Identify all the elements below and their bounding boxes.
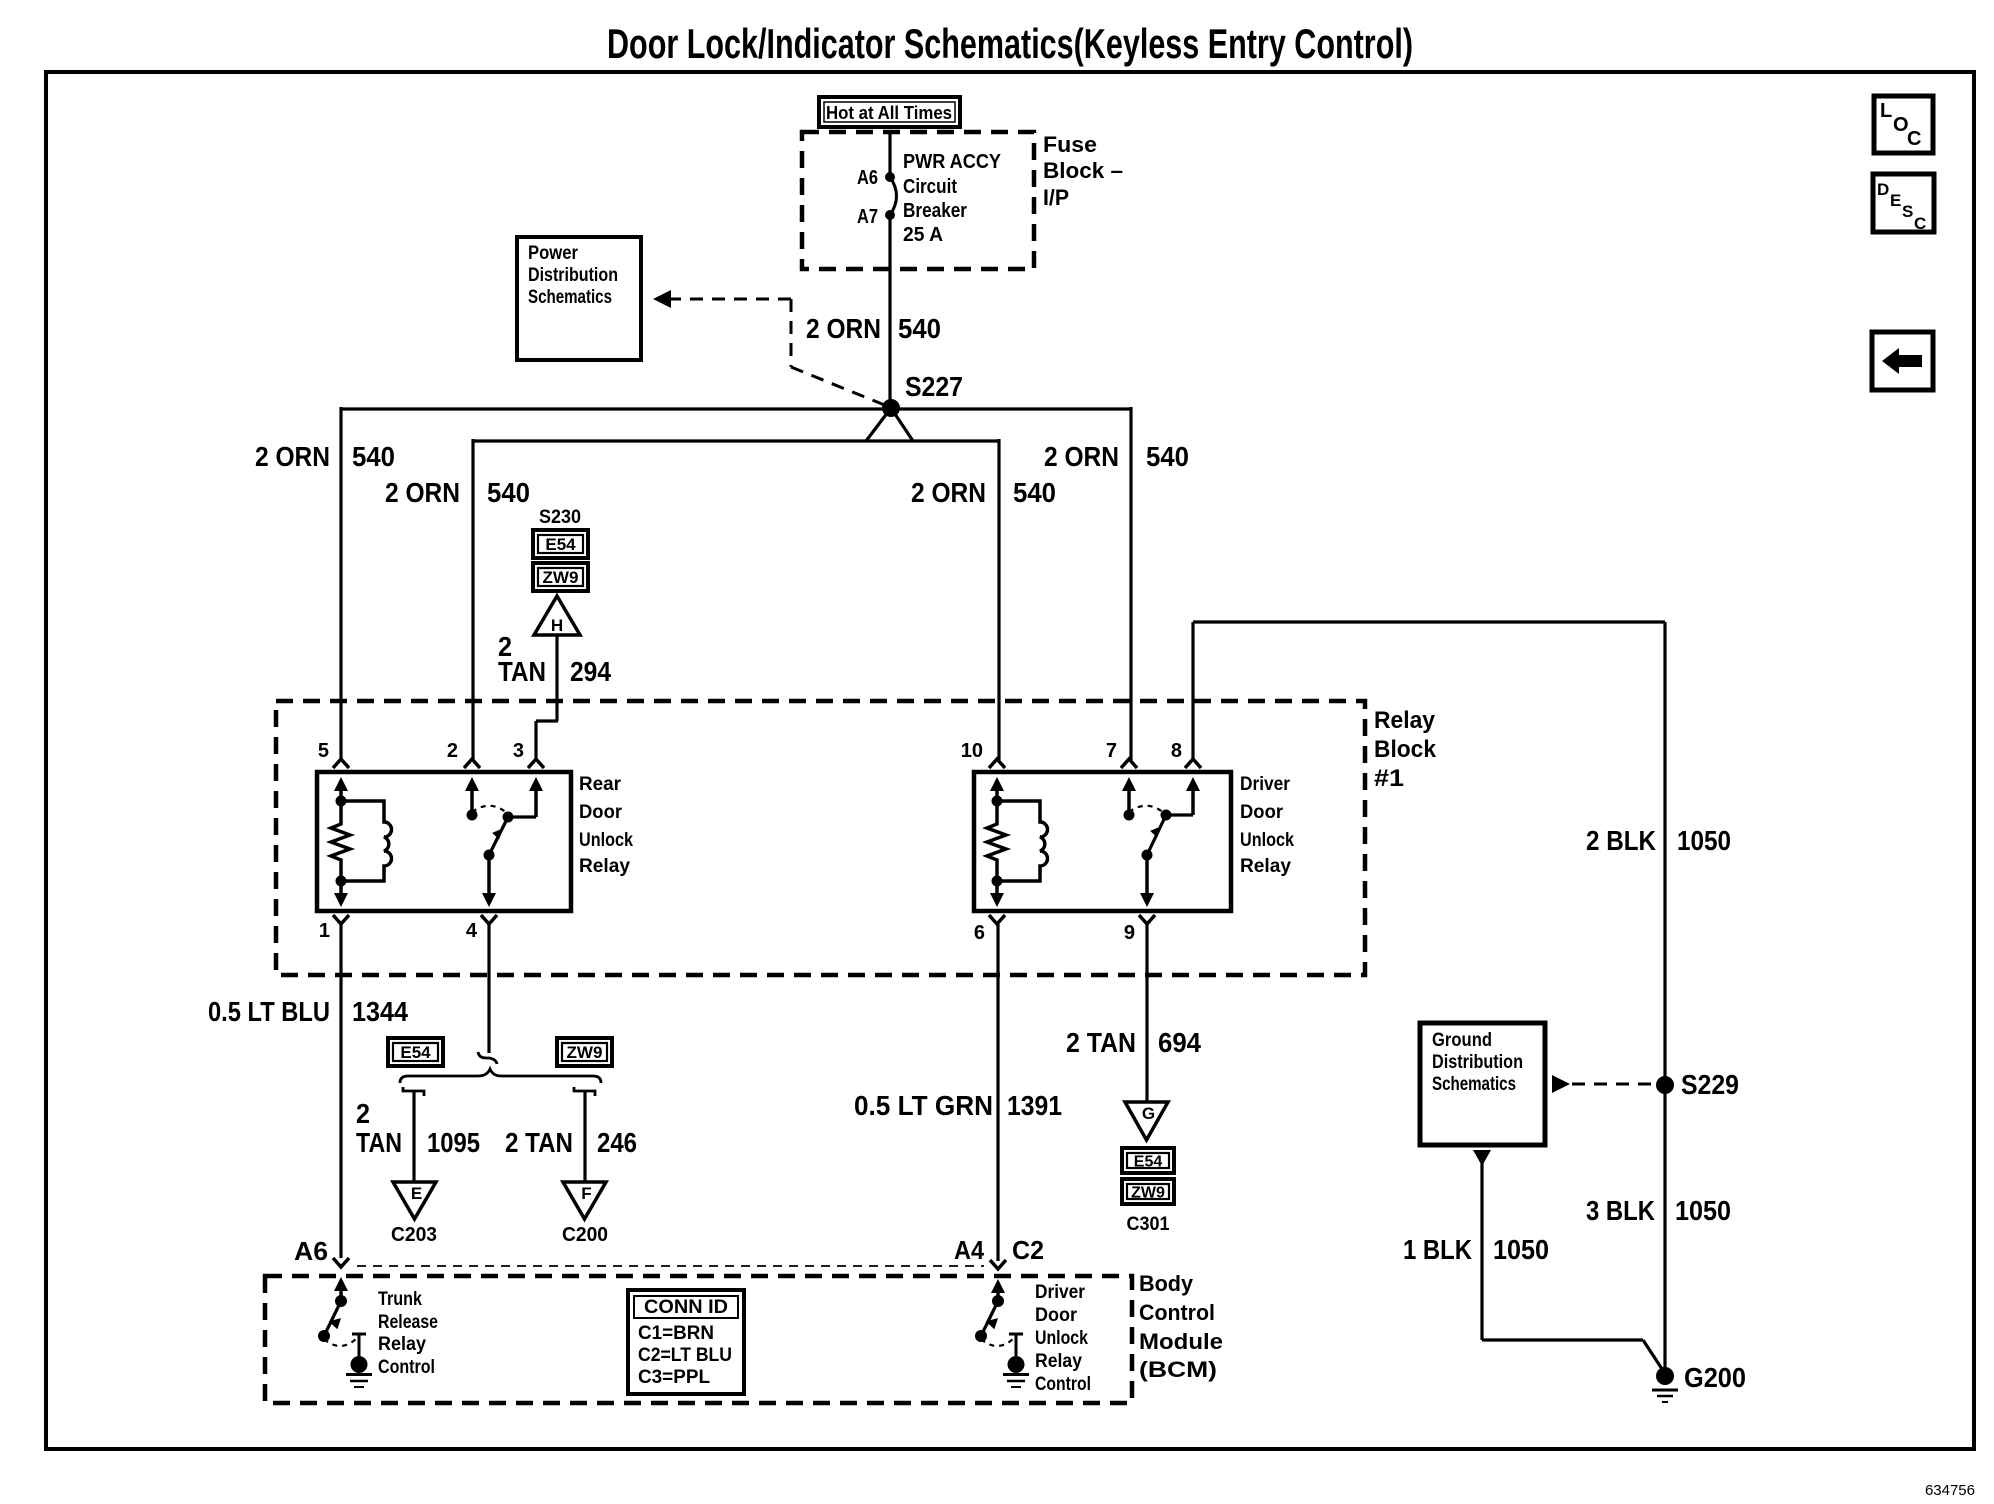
- relay: Rear Door Unlock Relay box: [317, 772, 571, 911]
- svg-text:E54: E54: [1134, 1153, 1163, 1170]
- Body Control Module dashed box: [265, 1276, 1132, 1403]
- svg-text:10: 10: [961, 740, 983, 762]
- pin 4 internal arrow: [482, 893, 496, 907]
- breakout left tap: [403, 1087, 424, 1096]
- svg-text:540: 540: [487, 477, 530, 508]
- wire ground distribution to G200: [1473, 1150, 1664, 1372]
- svg-text:1391: 1391: [1007, 1090, 1062, 1121]
- splice brace: [400, 1069, 601, 1083]
- svg-text:294: 294: [570, 656, 611, 687]
- label Driver Door Unlock Relay: [1240, 774, 1294, 877]
- svg-text:1344: 1344: [352, 996, 408, 1027]
- svg-text:A6: A6: [294, 1236, 328, 1266]
- svg-text:Ground: Ground: [1432, 1030, 1492, 1051]
- svg-text:L: L: [1880, 100, 1892, 122]
- svg-text:2: 2: [356, 1098, 370, 1129]
- svg-text:S230: S230: [539, 507, 581, 528]
- svg-text:2 TAN: 2 TAN: [505, 1127, 573, 1158]
- svg-text:ZW9: ZW9: [567, 1043, 603, 1062]
- svg-text:Driver: Driver: [1240, 774, 1291, 795]
- relay switch pivot (driver): [1161, 810, 1172, 821]
- svg-text:CONN ID: CONN ID: [644, 1297, 728, 1318]
- svg-text:Module: Module: [1139, 1329, 1223, 1354]
- label 2 ORN 540 (pin 2 branch): [385, 477, 530, 508]
- svg-text:Power: Power: [528, 243, 579, 264]
- svg-text:Unlock: Unlock: [1035, 1328, 1088, 1349]
- svg-text:1: 1: [319, 920, 330, 942]
- ground (trunk release): [351, 1356, 368, 1373]
- pin 7 connector chevron: [1121, 759, 1137, 768]
- triangle G: [1125, 1102, 1168, 1140]
- node S229: [1656, 1076, 1674, 1094]
- relay switch dashed throw (driver): [1129, 806, 1164, 813]
- svg-text:Door: Door: [579, 802, 623, 823]
- ground G200: [1652, 1390, 1678, 1402]
- svg-text:G: G: [1142, 1104, 1155, 1123]
- connector ZW9 (C301): [1122, 1179, 1174, 1204]
- triangle H: [534, 596, 580, 635]
- wire pin 9 to triangle G: [1145, 924, 1148, 1102]
- svg-text:#1: #1: [1374, 765, 1404, 792]
- wire pin 4 to splice breakout: [487, 924, 490, 1053]
- label Body Control Module (BCM): [1139, 1271, 1223, 1382]
- svg-text:PWR ACCY: PWR ACCY: [903, 151, 1002, 173]
- svg-text:2 TAN: 2 TAN: [1066, 1027, 1136, 1058]
- Relay Block #1 dashed box: [276, 701, 1365, 975]
- pin 6 internal arrow: [990, 893, 1004, 907]
- svg-text:ZW9: ZW9: [1131, 1184, 1165, 1201]
- svg-text:2 ORN: 2 ORN: [385, 477, 460, 508]
- svg-text:1050: 1050: [1675, 1195, 1731, 1226]
- svg-text:4: 4: [466, 920, 478, 942]
- svg-text:Driver: Driver: [1035, 1282, 1086, 1303]
- svg-text:1095: 1095: [427, 1127, 480, 1158]
- label 2 TAN 246: [505, 1127, 637, 1158]
- svg-text:Door Lock/Indicator Schematics: Door Lock/Indicator Schematics(Keyless E…: [607, 20, 1413, 67]
- dashed reference arrow to S229: [1552, 1075, 1652, 1093]
- node S227: [882, 399, 900, 417]
- svg-text:0.5 LT GRN: 0.5 LT GRN: [854, 1090, 993, 1121]
- fuse block dashed box: [802, 132, 1034, 269]
- pin 10 internal arrow: [990, 777, 1004, 791]
- svg-text:Body: Body: [1139, 1271, 1194, 1296]
- svg-text:ZW9: ZW9: [543, 568, 579, 587]
- svg-text:Block: Block: [1374, 736, 1437, 763]
- svg-text:Fuse: Fuse: [1043, 132, 1097, 157]
- svg-text:5: 5: [318, 740, 329, 762]
- wire fuse input: [888, 130, 891, 177]
- wire branch to pin 10: [997, 439, 1000, 760]
- svg-text:Door: Door: [1035, 1305, 1078, 1326]
- svg-text:E: E: [411, 1184, 422, 1203]
- svg-text:S227: S227: [905, 371, 963, 402]
- svg-text:7: 7: [1106, 740, 1117, 762]
- svg-text:540: 540: [352, 441, 395, 472]
- svg-text:25 A: 25 A: [903, 224, 943, 246]
- wire from triangle H to pin 3: [555, 635, 558, 721]
- pin 4 connector chevron: [481, 915, 497, 924]
- relay switch dashed throw (rear): [472, 806, 507, 813]
- svg-text:TAN: TAN: [356, 1127, 402, 1158]
- svg-text:Door: Door: [1240, 802, 1284, 823]
- svg-text:Control: Control: [1035, 1374, 1091, 1395]
- triangle E: [393, 1182, 436, 1219]
- Ground Distribution Schematics box: [1420, 1023, 1545, 1145]
- label 2 ORN 540 (pin 7 branch): [1044, 441, 1189, 472]
- svg-text:Unlock: Unlock: [579, 830, 633, 851]
- label Relay Block #1: [1374, 707, 1437, 792]
- CONN ID table: [628, 1290, 744, 1394]
- svg-text:I/P: I/P: [1043, 185, 1069, 210]
- svg-text:3: 3: [513, 740, 524, 762]
- svg-text:Distribution: Distribution: [528, 265, 618, 286]
- svg-text:S: S: [1902, 202, 1913, 221]
- node G200: [1656, 1367, 1674, 1385]
- wire branch to pin 5: [339, 407, 342, 760]
- svg-text:E54: E54: [545, 535, 576, 554]
- pin 2 connector chevron: [464, 759, 480, 768]
- pin 5 internal arrow: [334, 777, 348, 791]
- svg-text:Relay: Relay: [378, 1334, 426, 1355]
- svg-text:C2=LT BLU: C2=LT BLU: [638, 1345, 732, 1366]
- label 2 ORN 540 (fuse output): [806, 313, 941, 344]
- svg-text:Hot at All Times: Hot at All Times: [826, 103, 952, 123]
- svg-text:A4: A4: [954, 1235, 984, 1265]
- svg-text:C: C: [1914, 214, 1926, 233]
- svg-text:0.5 LT BLU: 0.5 LT BLU: [208, 996, 330, 1027]
- label Trunk Release Relay Control: [378, 1289, 438, 1378]
- BCM connector chevron A6: [333, 1258, 349, 1267]
- wire main bus: [341, 407, 1131, 410]
- label 3 BLK 1050: [1586, 1195, 1731, 1226]
- relay switch arm (rear): [484, 817, 509, 861]
- svg-text:Rear: Rear: [579, 774, 622, 795]
- label 2 TAN 694: [1066, 1027, 1201, 1058]
- label 2 BLK 1050: [1586, 825, 1731, 856]
- svg-text:2 ORN: 2 ORN: [255, 441, 330, 472]
- connector ZW9 (S230): [533, 563, 588, 591]
- svg-text:A7: A7: [857, 206, 878, 228]
- pin 3 connector chevron: [528, 759, 544, 768]
- svg-text:Circuit: Circuit: [903, 176, 957, 198]
- connector E54 (C301): [1122, 1148, 1174, 1173]
- relay switch pivot (rear): [503, 812, 514, 823]
- svg-text:1 BLK: 1 BLK: [1403, 1234, 1472, 1265]
- label 2 TAN 294: [498, 631, 611, 687]
- svg-text:Block –: Block –: [1043, 158, 1123, 183]
- svg-text:634756: 634756: [1925, 1482, 1975, 1499]
- wire fuse output to S227: [888, 215, 891, 408]
- triangle F: [563, 1182, 606, 1219]
- svg-text:Relay: Relay: [1374, 707, 1436, 734]
- svg-text:G200: G200: [1684, 1362, 1746, 1393]
- wire pin 1 to BCM A6: [339, 924, 342, 1258]
- pin 5 connector chevron: [333, 759, 349, 768]
- svg-text:H: H: [551, 616, 563, 635]
- svg-text:Control: Control: [1139, 1300, 1215, 1325]
- label Fuse Block - I/P: [1043, 132, 1123, 210]
- wire to triangle E: [412, 1091, 415, 1182]
- svg-text:F: F: [581, 1184, 591, 1203]
- label 2 TAN 1095: [356, 1098, 480, 1158]
- svg-text:2 ORN: 2 ORN: [911, 477, 986, 508]
- breakout wire-end curl: [478, 1052, 497, 1064]
- wire branch to pin 7: [1129, 407, 1132, 760]
- svg-text:E: E: [1890, 191, 1901, 210]
- svg-text:1050: 1050: [1493, 1234, 1549, 1265]
- svg-text:Schematics: Schematics: [1432, 1074, 1516, 1095]
- svg-text:C1=BRN: C1=BRN: [638, 1323, 714, 1344]
- breakout right tap: [574, 1087, 595, 1096]
- pin 3 internal wire and arrow: [508, 815, 536, 818]
- svg-text:Relay: Relay: [1240, 856, 1291, 877]
- svg-text:694: 694: [1158, 1027, 1201, 1058]
- BCM connector chevron A4: [990, 1260, 1006, 1269]
- svg-text:2 ORN: 2 ORN: [1044, 441, 1119, 472]
- label PWR ACCY Circuit Breaker 25 A: [903, 151, 1002, 246]
- pin 10 connector chevron: [989, 759, 1005, 768]
- svg-text:Breaker: Breaker: [903, 200, 967, 222]
- svg-text:9: 9: [1124, 922, 1135, 944]
- relay resistor (driver): [987, 801, 1006, 881]
- BCM connector dashed line: [357, 1265, 984, 1267]
- pin 1 internal arrow: [334, 893, 348, 907]
- svg-text:C203: C203: [391, 1224, 437, 1246]
- svg-text:A6: A6: [857, 167, 878, 189]
- svg-text:2 ORN: 2 ORN: [806, 313, 881, 344]
- pin 6 connector chevron: [989, 915, 1005, 924]
- svg-text:6: 6: [974, 922, 985, 944]
- svg-text:246: 246: [597, 1127, 637, 1158]
- relay resistor (rear): [331, 801, 350, 881]
- svg-text:Release: Release: [378, 1312, 438, 1333]
- pin 2 internal arrow and contact: [465, 777, 479, 791]
- label 1 BLK 1050: [1403, 1234, 1549, 1265]
- svg-text:Schematics: Schematics: [528, 287, 612, 308]
- svg-text:C3=PPL: C3=PPL: [638, 1367, 710, 1388]
- label 2 ORN 540 (pin 5 branch): [255, 441, 395, 472]
- wire second bus: [473, 439, 999, 442]
- relay switch arm (driver): [1142, 815, 1167, 861]
- connector E54 (breakout left): [388, 1038, 443, 1066]
- back arrow button: [1872, 332, 1933, 390]
- wire S227 left branch diagonal: [866, 408, 891, 441]
- wire pin 6 to BCM A4/C2: [996, 924, 999, 1261]
- svg-text:Relay: Relay: [1035, 1351, 1082, 1372]
- svg-text:540: 540: [1146, 441, 1189, 472]
- label 0.5 LT BLU 1344: [208, 996, 408, 1027]
- label 2 ORN 540 (pin 10 branch): [911, 477, 1056, 508]
- svg-text:Control: Control: [378, 1357, 435, 1378]
- svg-text:Trunk: Trunk: [378, 1289, 422, 1310]
- connector E54 (S230): [533, 530, 588, 558]
- pin 8 connector chevron: [1185, 759, 1201, 768]
- svg-text:Unlock: Unlock: [1240, 830, 1294, 851]
- svg-text:540: 540: [898, 313, 941, 344]
- DESC button: [1873, 174, 1934, 233]
- svg-text:2: 2: [447, 740, 458, 762]
- svg-text:Distribution: Distribution: [1432, 1052, 1523, 1073]
- relay coil (driver): [992, 796, 1048, 887]
- pin 1 connector chevron: [333, 915, 349, 924]
- svg-text:TAN: TAN: [498, 656, 546, 687]
- wire pin 8 to ground bus: [1191, 622, 1194, 760]
- circuit breaker 25A (A6-A7): [885, 172, 897, 220]
- svg-text:8: 8: [1171, 740, 1182, 762]
- wire S227 right branch diagonal: [891, 408, 913, 441]
- svg-text:Relay: Relay: [579, 856, 630, 877]
- driver door unlock relay control switch: [975, 1279, 1023, 1356]
- svg-text:C2: C2: [1012, 1235, 1044, 1265]
- dashed reference arrow to Power Distribution: [653, 290, 887, 406]
- svg-text:3 BLK: 3 BLK: [1586, 1195, 1655, 1226]
- relay coil (rear): [336, 796, 392, 887]
- svg-text:2 BLK: 2 BLK: [1586, 825, 1656, 856]
- Hot at All Times box: [819, 97, 960, 127]
- wire S229 to G200: [1663, 1085, 1666, 1375]
- svg-text:(BCM): (BCM): [1139, 1357, 1217, 1382]
- wire branch to pin 2: [471, 439, 474, 760]
- svg-text:E54: E54: [400, 1043, 431, 1062]
- trunk release relay control switch: [318, 1277, 366, 1356]
- svg-text:D: D: [1877, 180, 1889, 199]
- relay: Driver Door Unlock Relay box: [974, 772, 1231, 911]
- Power Distribution Schematics box: [517, 237, 641, 360]
- label Rear Door Unlock Relay: [579, 774, 633, 877]
- pin 7 internal arrow and contact: [1122, 777, 1136, 791]
- svg-text:S229: S229: [1681, 1069, 1739, 1100]
- svg-text:540: 540: [1013, 477, 1056, 508]
- ground (driver door unlock): [1008, 1356, 1025, 1373]
- svg-text:C200: C200: [562, 1224, 608, 1246]
- svg-text:C: C: [1907, 128, 1921, 150]
- svg-text:1050: 1050: [1677, 825, 1731, 856]
- pin 8 internal wire and arrow: [1166, 813, 1193, 816]
- label Driver Door Unlock Relay Control: [1035, 1282, 1091, 1395]
- LOC button: [1874, 96, 1933, 153]
- svg-text:C301: C301: [1127, 1214, 1170, 1235]
- pin 9 connector chevron: [1139, 915, 1155, 924]
- pin 9 internal arrow: [1140, 893, 1154, 907]
- wire to triangle F: [583, 1091, 586, 1182]
- label 0.5 LT GRN 1391: [854, 1090, 1062, 1121]
- connector ZW9 (breakout right): [557, 1038, 612, 1066]
